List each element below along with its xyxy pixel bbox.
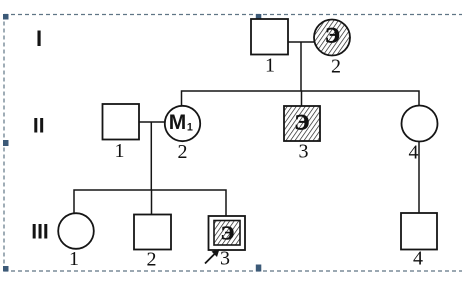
marriage line II-1 to II-2 (139, 121, 165, 123)
svg-text:2: 2 (331, 56, 341, 78)
descent line from II couple to generation III (150, 122, 152, 190)
descent line from I couple to generation II (300, 42, 302, 91)
svg-text:III: III (31, 221, 49, 244)
selection handle middle-left (3, 140, 9, 146)
svg-text:2: 2 (178, 141, 188, 163)
individual I-2 circle female affected (314, 20, 350, 56)
svg-text:1: 1 (69, 248, 79, 270)
individual III-1 circle female (58, 213, 94, 249)
svg-text:I: I (36, 26, 42, 51)
marriage line I-1 to I-2 (288, 41, 315, 43)
selection border left (3, 15, 5, 272)
selection handle bottom-middle (256, 265, 261, 272)
descent drop to II-3 (301, 91, 303, 106)
selection border bottom (4, 270, 462, 272)
svg-text:2: 2 (147, 249, 157, 271)
individual III-3 outer square proband affected (209, 216, 246, 250)
svg-text:4: 4 (409, 142, 419, 164)
individual I-1 square male (251, 19, 288, 55)
svg-text:4: 4 (413, 248, 423, 270)
svg-text:3: 3 (299, 141, 309, 163)
descent drop to III-2 (151, 190, 153, 215)
individual II-2 circle female carrier (165, 106, 200, 141)
svg-text:Э: Э (295, 110, 310, 135)
svg-text:Э: Э (221, 223, 235, 245)
individual III-3 inner square hatched (214, 221, 240, 246)
selection border top (4, 14, 462, 16)
sibship line generation II (182, 91, 420, 109)
selection handle top-left (3, 14, 9, 20)
individual III-2 square male (134, 215, 171, 250)
sibship line generation III (74, 190, 226, 216)
individual II-4 circle female (402, 106, 438, 142)
svg-text:1: 1 (265, 55, 275, 77)
svg-text:Э: Э (325, 23, 340, 48)
proband arrow (205, 252, 217, 264)
selection handle top-middle (256, 14, 261, 20)
individual II-1 square male (103, 104, 140, 140)
descent line II-4 to III-4 (418, 142, 420, 214)
svg-text:1: 1 (115, 140, 125, 162)
selection handle bottom-left (3, 266, 9, 272)
individual II-3 square male affected (284, 106, 320, 141)
svg-text:II: II (33, 115, 45, 138)
individual III-4 square male (401, 213, 437, 250)
svg-text:3: 3 (220, 248, 230, 270)
